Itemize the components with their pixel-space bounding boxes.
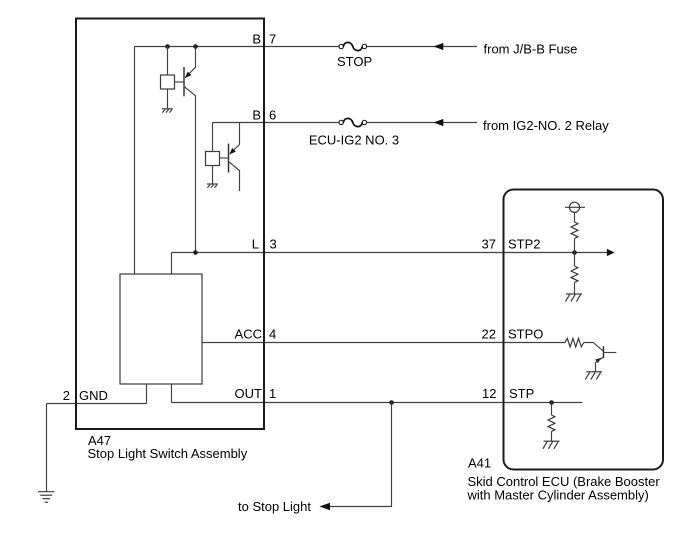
- wire R1 bottom lead: [167, 89, 169, 109]
- wire Q1 collector lead: [185, 47, 195, 78]
- ground (Q3 emitter): [585, 372, 602, 380]
- svg-text:B: B: [252, 32, 261, 47]
- ground (Q2 resistor ground): [207, 184, 218, 188]
- arrow STP2 (right): [607, 249, 615, 256]
- svg-text:B: B: [252, 108, 261, 123]
- resistor R6 (STP pull-down): [548, 415, 555, 431]
- svg-text:GND: GND: [79, 388, 108, 403]
- ground (Q1 resistor ground): [162, 109, 173, 113]
- svg-text:6: 6: [269, 108, 276, 123]
- wire B6 horizontal: [213, 122, 478, 124]
- svg-text:OUT: OUT: [235, 386, 263, 401]
- svg-text:STPO: STPO: [508, 326, 543, 341]
- transistor Q1 base bar: [183, 67, 185, 96]
- wire Q2 emitter lead: [229, 162, 240, 192]
- node junction STP resistor branch: [549, 400, 554, 405]
- ground (STP): [543, 441, 560, 449]
- svg-text:Stop Light Switch Assembly: Stop Light Switch Assembly: [88, 446, 248, 461]
- wire R6 to ground: [551, 431, 553, 441]
- arrow from J/B-B Fuse: [434, 43, 444, 50]
- svg-text:STP2: STP2: [508, 236, 541, 251]
- svg-text:STP: STP: [509, 386, 534, 401]
- node junction on B7 at Q1 collector branch: [193, 44, 198, 49]
- connector box inside A47: [120, 274, 202, 384]
- wire R4 to ground: [574, 282, 576, 294]
- svg-text:37: 37: [482, 236, 496, 251]
- wire Q1 emitter lead down to L3: [184, 86, 196, 252]
- svg-text:ACC: ACC: [235, 326, 262, 341]
- resistor R2 (box): [206, 152, 220, 166]
- wire L3 / STP2: [172, 252, 609, 254]
- svg-text:2: 2: [63, 388, 70, 403]
- svg-text:from IG2-NO. 2 Relay: from IG2-NO. 2 Relay: [483, 118, 609, 133]
- wire Q3 collector lead: [604, 352, 617, 354]
- resistor R1 (box): [161, 75, 175, 89]
- wire OUT / STP: [172, 402, 583, 404]
- resistor R3 (pull-up): [571, 222, 578, 238]
- resistor R5 (STPO series): [565, 338, 584, 347]
- svg-text:A41: A41: [468, 456, 491, 471]
- arrow from IG2-NO. 2 Relay: [434, 119, 444, 126]
- svg-text:with Master Cylinder Assembly): with Master Cylinder Assembly): [467, 488, 649, 503]
- fuse ECU-IG2 NO. 3: [339, 118, 367, 126]
- wire B7 horizontal: [135, 46, 478, 48]
- svg-text:to Stop Light: to Stop Light: [238, 499, 311, 514]
- transistor Q3 emitter arrow: [595, 358, 601, 363]
- arrow to Stop Light: [320, 503, 331, 511]
- wire B7 left vertical down to connector box: [134, 47, 136, 275]
- svg-text:12: 12: [482, 386, 496, 401]
- transistor Q3 base bar: [603, 346, 605, 358]
- svg-text:ECU-IG2 NO. 3: ECU-IG2 NO. 3: [309, 132, 399, 147]
- wire Q2 base lead: [220, 157, 229, 159]
- resistor R4 (pull-down): [571, 266, 578, 282]
- svg-text:3: 3: [270, 236, 277, 251]
- fuse STOP: [339, 42, 367, 50]
- wire R1 top lead: [167, 47, 169, 76]
- transistor Q2 base bar: [228, 144, 230, 173]
- power symbol (circle) above STP2: [565, 202, 585, 212]
- wire OUT drop from connector box: [171, 384, 173, 403]
- svg-text:1: 1: [269, 386, 276, 401]
- connector A47 box: [76, 19, 264, 430]
- svg-text:STOP: STOP: [337, 54, 372, 69]
- wire B6 left vertical to R2: [212, 123, 214, 152]
- transistor Q2 emitter arrow: [229, 148, 235, 154]
- wire R2 bottom lead: [212, 166, 214, 185]
- wire GND from connector box: [47, 384, 147, 404]
- ground (STP2): [565, 294, 582, 302]
- wire R3 to node: [574, 238, 576, 266]
- wire circle to R3: [574, 212, 576, 222]
- transistor Q1 emitter arrow: [185, 72, 191, 78]
- wire ACC / STPO: [202, 342, 565, 344]
- wire L3 drop to connector box: [171, 253, 173, 275]
- svg-text:7: 7: [269, 32, 276, 47]
- wire Q1 base lead: [175, 81, 185, 83]
- node junction Q1 emitter on L3: [193, 250, 198, 255]
- wire Q2 collector lead: [230, 123, 240, 155]
- svg-text:from J/B-B Fuse: from J/B-B Fuse: [484, 42, 578, 57]
- node junction STP2 divider: [572, 250, 577, 255]
- wire R5 to Q3 base: [584, 343, 604, 352]
- ECU A41 box: [504, 190, 664, 470]
- svg-text:4: 4: [269, 326, 276, 341]
- wire to Stop Light: [330, 403, 392, 507]
- node junction on B7 at R1 branch: [165, 44, 170, 49]
- svg-text:22: 22: [482, 326, 496, 341]
- ground (earth, bottom left): [38, 492, 55, 503]
- wire GND down to earth: [46, 404, 48, 492]
- wire STP node to R6: [551, 403, 553, 416]
- svg-text:L: L: [252, 236, 259, 251]
- wire Q3 emitter lead: [596, 357, 604, 372]
- node junction on OUT wire to stop light: [389, 400, 394, 405]
